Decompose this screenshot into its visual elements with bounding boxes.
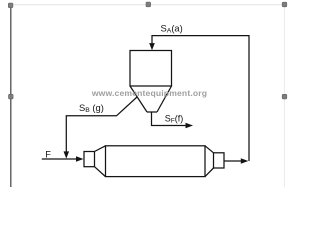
selection frame left border [10,5,12,187]
svg-text:www.cementequipment.org: www.cementequipment.org [91,88,207,98]
mill right cone top slope [205,146,214,153]
svg-text:SA(a): SA(a) [161,22,183,34]
selection handle top-left [8,3,13,8]
svg-text:F: F [45,149,51,159]
selection frame right border [284,5,286,187]
arrowhead SF right [186,123,194,129]
mill right cone bottom slope [205,168,214,177]
arrowhead F into mill [76,156,84,162]
mill left cone bottom slope [95,167,106,177]
arrowhead SB down onto feed line [64,151,70,158]
arrowhead mill outlet right [241,158,249,164]
mill left cone top slope [95,146,106,152]
selection handle middle-left [9,94,14,99]
separator funnel left slope [130,86,147,112]
selection frame top border [11,4,285,6]
wire F feed line [42,158,78,160]
wire mill outlet to riser [224,160,243,162]
separator funnel bottom [147,111,157,113]
separator funnel right slope [157,86,172,112]
svg-text:SB (g): SB (g) [79,102,104,114]
svg-text:SF(f): SF(f) [165,113,184,124]
arrowhead SA down into separator [149,43,155,50]
wire riser up right side [152,36,249,161]
selection handle top-right [282,2,287,7]
mill body [106,146,206,177]
wire SF product: down then right [152,112,188,126]
selection handle middle-right [282,94,287,99]
separator top rectangle [130,51,172,87]
mill left trunnion square [84,152,95,167]
mill right trunnion square [214,153,225,168]
selection handle top-middle [146,2,151,7]
wire SB recycle: slope, horizontal, vertical drop [66,97,137,153]
